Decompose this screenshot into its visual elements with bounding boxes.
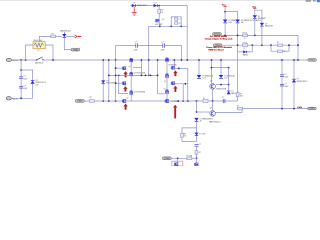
- svg-text:47pF: 47pF: [23, 88, 27, 90]
- wire Q2 base row: [216, 84, 229, 86]
- node B3 feeder on bus: [157, 59, 159, 61]
- connector J4 (TM10): [213, 33, 222, 36]
- capacitor C5 on gate wire: [222, 99, 224, 103]
- wire row1 right leg down to bus: [297, 35, 299, 60]
- wire R11 to bottom node: [196, 154, 198, 158]
- wire gate drive main: [94, 100, 237, 102]
- svg-text:D?: D?: [133, 3, 135, 5]
- diode D18 MBRS130LT3: [292, 80, 296, 83]
- wire B2 top feeder from bus: [173, 60, 175, 66]
- svg-text:D? LED: D? LED: [199, 133, 206, 135]
- diode D5 MBRS130LT3: [132, 4, 135, 7]
- browser UI remnant top-right gray tab 1: [306, 0, 312, 2]
- svg-text:AB25W-Q: AB25W-Q: [35, 62, 44, 65]
- wire diode loop row2: [238, 45, 253, 52]
- wire right rail x167: [166, 60, 168, 103]
- connector J2 (TBA): [71, 48, 80, 51]
- transistor Q5 at bottom edge: [195, 163, 199, 166]
- diode D8 MBRS130LT3: [235, 20, 240, 23]
- node B2 drain: [178, 68, 180, 70]
- red current arrow AR1: [124, 71, 128, 77]
- capacitor C9 in loop: [175, 18, 178, 20]
- node D7 on row1: [224, 35, 226, 37]
- capacitor C2: [19, 86, 23, 88]
- svg-text:F?: F?: [38, 50, 40, 52]
- svg-text:R?: R?: [199, 152, 201, 154]
- wire gate feedback rail: [149, 25, 188, 27]
- resistor R10 bypass: [181, 133, 184, 137]
- wire bridge feeder A x103.2: [102, 60, 104, 101]
- transistor B1 on right rail (straddles bus): [165, 58, 168, 62]
- node zener base node: [196, 111, 198, 113]
- node cap rail right on bus: [181, 59, 183, 61]
- svg-text:C?: C?: [222, 97, 224, 99]
- svg-text:C?: C?: [162, 41, 164, 43]
- svg-text:SMAJ103CA-T: SMAJ103CA-T: [60, 30, 71, 33]
- wire PWM out: [243, 108, 308, 110]
- node loop right: [180, 25, 182, 27]
- wire A2 gate stub: [116, 67, 123, 69]
- node A4 gate: [115, 82, 117, 84]
- svg-text:R? 10: R? 10: [243, 42, 248, 44]
- wire left rail x131: [130, 60, 132, 101]
- svg-text:R?: R?: [90, 97, 92, 99]
- node Q1 to rail: [159, 25, 161, 27]
- wire Q2 emitter down: [212, 89, 214, 101]
- red current arrow BR3 (tall): [173, 105, 177, 118]
- transistor A1 on left rail: [130, 58, 133, 62]
- node row2 to leg: [297, 44, 299, 46]
- node gd x114.5: [115, 100, 117, 102]
- wire TVS D13 leg: [220, 60, 222, 75]
- TVS diode D13 SMAJ12A: [219, 75, 224, 78]
- wire bridge feeder B x108.8: [108, 60, 110, 101]
- svg-text:Charge adapter In /Stop Lock: Charge adapter In /Stop Lock: [205, 38, 234, 41]
- red current arrow BR2: [174, 86, 178, 92]
- node gate rail leg on bus: [148, 59, 150, 61]
- resistor R5 on row2: [278, 44, 283, 46]
- red highlight box: [172, 161, 183, 166]
- node gd x178: [177, 100, 179, 102]
- node D12 on bus: [198, 59, 200, 61]
- node PACK- junction: [20, 97, 22, 99]
- wire Q3 collector/base area: [196, 101, 198, 112]
- wire Vcc2 branch right: [255, 10, 262, 23]
- node rail2 on pwm: [293, 108, 295, 110]
- connector J5 (TM9): [213, 44, 222, 47]
- wire control row2: [222, 44, 298, 46]
- wire R2 to Q1: [158, 13, 160, 18]
- svg-text:MMSZ4696: MMSZ4696: [106, 83, 115, 85]
- node B3 feeder cross: [157, 75, 159, 77]
- svg-text:R?: R?: [179, 23, 181, 25]
- wire main positive bus (switch to mid): [43, 59, 308, 61]
- node feeder B on bus: [108, 59, 110, 61]
- node top rail junction: [158, 5, 160, 7]
- svg-text:MBRS130LT3: MBRS130LT3: [297, 81, 308, 83]
- wire Q1 drain down to gate rail: [159, 23, 161, 27]
- node gd x213: [212, 100, 214, 102]
- node gd x183: [182, 100, 184, 102]
- node bottom junction: [196, 157, 198, 159]
- wire A3 gate row: [109, 74, 158, 76]
- node crossbar left: [211, 67, 213, 69]
- diode D6: [154, 4, 157, 7]
- wire gate rail left leg down to bus: [148, 26, 150, 75]
- wire cap rail middle: [138, 45, 163, 47]
- wire LED bypass branch: [182, 128, 197, 133]
- svg-text:BAT54: BAT54: [243, 53, 248, 56]
- svg-text:BAT54HT1: BAT54HT1: [258, 17, 266, 20]
- wire fuse loop right leg: [45, 45, 53, 60]
- node crossbar right: [228, 67, 230, 69]
- node gd x108.8: [108, 100, 110, 102]
- wire B5 gate loop to rail: [158, 93, 165, 95]
- diode D10 BAT54HT1: [253, 15, 257, 18]
- red current arrow AR3: [124, 104, 128, 110]
- node D8row1 cross: [237, 35, 239, 37]
- resistor R3: [243, 34, 248, 37]
- wire cap rail right leg: [165, 46, 182, 60]
- svg-text:Q?: Q?: [164, 81, 166, 83]
- wire zener down: [196, 121, 198, 141]
- svg-text:47pF: 47pF: [284, 76, 288, 78]
- node B3 row x145.4: [145, 75, 147, 77]
- transistor A5 on left rail: [130, 91, 133, 95]
- node gd x196.5: [196, 100, 198, 102]
- resistor R13 in loop: [175, 22, 178, 24]
- svg-text:R?: R?: [283, 51, 285, 53]
- svg-text:Q?: Q?: [129, 66, 131, 68]
- TVS diode D7 SMAJ5.0A: [223, 20, 228, 23]
- node Vcc2 leg on row1: [254, 35, 256, 37]
- node row1 leg on bus: [297, 59, 299, 61]
- svg-text:BAT54HT1: BAT54HT1: [265, 25, 273, 28]
- wire control row1: [222, 34, 299, 36]
- svg-text:PWM Gen Boost: PWM Gen Boost: [208, 48, 224, 51]
- red current arrow AR2: [124, 86, 128, 91]
- node bottom left junction: [177, 157, 179, 159]
- wire D11 to row2: [261, 26, 263, 45]
- svg-text:R?: R?: [237, 106, 239, 108]
- resistor R8: [238, 107, 243, 110]
- svg-text:(TBA): (TBA): [73, 48, 79, 51]
- transistor A4: [122, 82, 126, 85]
- wire D10 to row1: [254, 19, 256, 36]
- svg-text:PACK+: PACK+: [12, 59, 20, 62]
- node rail1 on bus: [281, 59, 283, 61]
- wire D1 to off-page: [66, 35, 74, 37]
- svg-text:R?: R?: [277, 42, 279, 44]
- svg-text:PACK-: PACK-: [12, 97, 19, 100]
- zener D17 on feeder A: [101, 80, 105, 83]
- wire Q2 crossbar: [212, 67, 229, 69]
- svg-text:(TM10): (TM10): [214, 33, 221, 35]
- wire down to highlighted part: [177, 158, 179, 162]
- node B4 drain: [185, 83, 187, 85]
- svg-text:MMBT2907A: MMBT2907A: [216, 87, 227, 90]
- wire Vcc2 stem: [254, 8, 256, 15]
- svg-text:PWM: PWM: [297, 107, 302, 109]
- svg-text:Q?: Q?: [210, 107, 212, 109]
- capacitor C8: [280, 83, 284, 85]
- node diode loop right on row2: [251, 44, 253, 46]
- svg-text:Q? FDS4935A: Q? FDS4935A: [134, 72, 146, 75]
- svg-text:R? 10: R? 10: [243, 33, 248, 35]
- diode D2 MBRS130LT3: [30, 81, 34, 84]
- svg-text:C?: C?: [135, 41, 137, 43]
- node loop2 right: [288, 44, 290, 46]
- wire A4 gate stub: [116, 82, 123, 84]
- node rail2 on bus: [293, 59, 295, 61]
- node fuse right to bus: [52, 59, 54, 61]
- wire main positive bus (left segment to switch): [11, 59, 36, 61]
- svg-text:Q?: Q?: [210, 80, 212, 82]
- transistor A2 (high side P-FET): [122, 67, 126, 70]
- resistor R4: [243, 44, 248, 47]
- svg-text:Q? SI4925: Q? SI4925: [171, 101, 179, 103]
- transistor B5 on right rail: [165, 90, 168, 94]
- svg-text:Q?: Q?: [163, 88, 165, 90]
- transistor Q3 MMBT3904: [210, 111, 216, 117]
- wire B4 drain right: [175, 83, 188, 85]
- node bus/fuse-left junction: [25, 59, 27, 61]
- svg-text:(TBA): (TBA): [164, 157, 170, 160]
- wire TVS D12 leg: [198, 60, 200, 75]
- wire bypass to main: [182, 137, 197, 141]
- transistor A6 (low side): [122, 99, 126, 102]
- TVS diode D12 SMAJ5.0A: [197, 75, 202, 78]
- wire cap rail left leg: [116, 46, 136, 60]
- LED D16: [194, 133, 198, 136]
- red current arrow BR1: [174, 71, 178, 76]
- svg-text:Q?: Q?: [126, 97, 128, 99]
- wire C5 to vertical x237.6: [237, 52, 239, 101]
- wire B2 drain right: [175, 67, 188, 69]
- wire output rail 2 x294: [293, 60, 295, 109]
- transistor A3 on left rail: [130, 72, 133, 76]
- diode D14 BAT54: [227, 91, 231, 94]
- wire filter parallel branch: [21, 70, 32, 98]
- wire crossbar right leg down: [228, 68, 230, 85]
- node filter branch junction: [20, 69, 22, 71]
- connector J9 bottom (TBA): [162, 157, 171, 160]
- wire D6 node down to R2: [158, 6, 160, 10]
- diode D11 BAT54HT1: [260, 23, 264, 26]
- svg-text:47pF: 47pF: [284, 86, 288, 88]
- resistor R14 on x237.6 vertical: [236, 93, 239, 97]
- svg-text:47pF: 47pF: [134, 49, 138, 51]
- capacitor C3: [135, 43, 137, 47]
- wire top rail right leg down to bus: [186, 6, 188, 60]
- svg-text:R?: R?: [203, 98, 205, 100]
- wire left filter vertical (PACK+ rail down): [20, 60, 22, 98]
- svg-text:47pF: 47pF: [23, 78, 27, 80]
- resistor R1: [51, 35, 56, 38]
- node rail1 on pwm: [281, 108, 283, 110]
- svg-text:47pF: 47pF: [161, 49, 165, 51]
- node A2 gate: [115, 67, 117, 69]
- wire bottom node down to Q5: [196, 158, 198, 163]
- svg-text:D?: D?: [155, 3, 157, 5]
- wire left loop vertical from bus: [140, 60, 142, 75]
- transistor Q2 MMBT2907A: [210, 84, 216, 90]
- svg-text:SFH-1206S: SFH-1206S: [34, 40, 44, 42]
- TVS diode D1 SMAJ103CA: [62, 34, 66, 37]
- wire bridge feeder C x115.6 (cap rail leg continues): [115, 60, 117, 101]
- wire Q3 collector up: [212, 101, 214, 110]
- node D13 on bus: [220, 59, 222, 61]
- svg-text:Q?: Q?: [162, 19, 164, 21]
- wire fuse top branch to TVS: [39, 36, 50, 41]
- node base row mid: [220, 84, 222, 86]
- node Q2 leg on bus: [211, 59, 213, 61]
- resistor R7 on gate wire: [203, 100, 208, 103]
- connector J8 PWM: [308, 107, 317, 110]
- wire Q2 collector from bus: [211, 60, 213, 83]
- wire R1 to D1: [56, 35, 62, 37]
- wire D14 leg: [228, 85, 230, 91]
- transistor Q4 inside highlight: [175, 163, 179, 166]
- wire D8 down to row2: [237, 23, 239, 45]
- resistor R11: [195, 151, 198, 155]
- wire D7 down to row1: [224, 23, 226, 35]
- node row2 vcc branch: [261, 44, 263, 46]
- node row2 loop2 left: [270, 44, 272, 46]
- transistor B3 on right rail: [165, 74, 168, 78]
- wire fuse loop left leg: [26, 45, 33, 60]
- svg-text:R? 10K: R? 10K: [186, 155, 193, 157]
- svg-text:MMBT3904LT1: MMBT3904LT1: [209, 121, 221, 123]
- switch SW1: [36, 59, 37, 60]
- browser UI remnant top-right gray tab 2: [313, 0, 316, 2]
- node right rail on bus: [166, 59, 168, 61]
- wire left leg loop right: [133, 67, 141, 69]
- svg-text:(TBA): (TBA): [77, 100, 83, 103]
- wire output rail 1 x282: [281, 60, 283, 109]
- wire Vcc1 branch to D8: [225, 12, 238, 20]
- node bus/filter-left junction: [20, 59, 22, 61]
- node loop left: [170, 25, 172, 27]
- node A3 gate feederB: [108, 75, 110, 77]
- wire bottom row: [171, 157, 196, 159]
- connector J7 bus right end: [308, 59, 317, 62]
- resistor R12: [187, 157, 192, 160]
- wire A5 gate loop: [119, 75, 128, 93]
- node left loop on bus: [141, 59, 143, 61]
- wire RC loop2: [271, 45, 289, 51]
- wire Q3 emitter right: [215, 109, 242, 113]
- node gd x103: [102, 100, 104, 102]
- node B3 row x150.5: [150, 75, 152, 77]
- svg-text:10: 10: [244, 38, 246, 40]
- fuse F1 (PTC, yellow): [33, 42, 45, 49]
- node gd x188: [187, 100, 189, 102]
- off-page connector (red) charger+: [75, 35, 78, 38]
- resistor R9: [89, 100, 94, 103]
- node D8 on row2: [237, 44, 239, 46]
- wire RC loop: [171, 17, 181, 27]
- wire D1 bottom lead to connector: [64, 38, 71, 50]
- wire B3 gate feeder from bus: [157, 60, 159, 94]
- wire top control rail: [130, 5, 187, 7]
- capacitor C4: [162, 43, 164, 47]
- svg-text:R?: R?: [52, 34, 54, 36]
- window top border line: [0, 0, 320, 2]
- node A3 gate x118.7: [118, 75, 120, 77]
- svg-text:Q? FDS4935A: Q? FDS4935A: [134, 90, 146, 93]
- transistor B6 (low side, on gate wire): [165, 99, 169, 102]
- page background: [0, 0, 320, 166]
- node top rail leg on bus: [186, 59, 188, 61]
- browser UI remnant top-right blue button: [317, 0, 320, 2]
- svg-text:10: 10: [161, 12, 163, 14]
- wire C6 to R11: [196, 146, 198, 150]
- svg-text:C?: C?: [179, 19, 181, 21]
- diode D9 BAT54: [243, 50, 246, 53]
- wire Vcc1 stem: [224, 7, 226, 20]
- node left rail on bus: [130, 59, 132, 61]
- node B2 feeder on bus: [174, 59, 176, 61]
- ground symbol (red) at D5: [132, 7, 137, 15]
- capacitor C6: [195, 144, 199, 146]
- connector J6 gate drive: [75, 100, 84, 103]
- node Vcc1 branch: [224, 11, 226, 13]
- svg-text:BAT54: BAT54: [231, 92, 236, 95]
- wire Q3 base stub: [197, 111, 210, 113]
- transistor B2: [171, 66, 175, 69]
- svg-text:MBRS130LT3: MBRS130LT3: [137, 5, 148, 7]
- connector J3 PACK- (left bottom): [6, 97, 11, 100]
- node base row right: [228, 84, 230, 86]
- wire B4 link vertical x183.2: [182, 84, 184, 101]
- connector J1 PACK+ (left top): [6, 58, 11, 61]
- svg-text:(TM2): (TM2): [309, 108, 315, 110]
- svg-text:C?: C?: [199, 144, 201, 146]
- node A3 gate x114.5: [115, 75, 117, 77]
- transistor Q1 FDC508P: [156, 19, 160, 22]
- capacitor C7: [280, 74, 284, 76]
- svg-text:10: 10: [244, 48, 246, 50]
- node feeder A on bus: [102, 59, 104, 61]
- transistor B4: [171, 82, 175, 85]
- resistor R6 in loop2: [278, 50, 283, 52]
- wire gate drive stub: [84, 100, 89, 102]
- wire right leg drain vertical x187.8: [187, 68, 189, 101]
- node B3 row x140: [141, 75, 143, 77]
- zener diode D15 MMSZ4683T1: [194, 118, 198, 121]
- resistor R2: [158, 9, 161, 13]
- wire loop stub left: [171, 16, 176, 18]
- node gate rail leg cross: [148, 75, 150, 77]
- capacitor C1: [19, 76, 23, 78]
- node cap rail left on bus: [115, 59, 117, 61]
- svg-text:(TM5): (TM5): [309, 59, 315, 61]
- wire PACK- to filter bottom: [11, 97, 32, 99]
